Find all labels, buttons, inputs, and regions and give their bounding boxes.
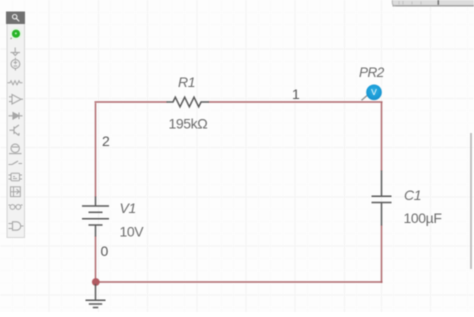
toolbar icon: ground [11,48,21,56]
svg-text:R1: R1 [178,74,195,90]
wire: left vertical below V1 [95,236,97,282]
svg-text:V1: V1 [120,200,136,216]
resistor R1 [167,97,210,107]
svg-text:2: 2 [102,133,110,149]
probe PR2 [362,85,382,101]
capacitor C1 [372,171,392,226]
wire: right vertical above C1 [381,102,383,171]
top zoom toolbar (clipped) [392,0,474,6]
svg-text:PR2: PR2 [359,65,385,80]
wire: top horizontal right of R1 (node 1) [209,101,383,103]
toolbar icon: resistor [8,81,23,85]
toolbar icon: misc [9,205,23,210]
wire: bottom horizontal [96,281,383,283]
toolbar icon: PLD [11,187,21,197]
toolbar icon: indicator [9,144,22,154]
svg-text:C1: C1 [404,187,421,203]
toolbar icon: AND gate [9,222,24,230]
svg-text:100µF: 100µF [404,210,442,226]
left toolbar strip [7,12,25,238]
battery V1 [82,197,109,237]
svg-text:0: 0 [101,243,109,259]
wire: top horizontal left of R1 [95,101,168,103]
right scrollbar thumb [470,133,472,269]
junction dot node 0 [92,278,100,286]
wire: top-left vertical (node 2) [95,103,97,197]
toolbar icon: op-amp [9,95,23,105]
toolbar icon: transistor [10,125,20,136]
svg-text:V: V [371,87,377,97]
ground [86,284,106,308]
toolbar icon: power source [11,58,20,71]
toolbar icon: diode [9,113,23,120]
toolbar icon: switch [9,161,23,165]
wire: right vertical below C1 [381,225,383,283]
svg-text:1: 1 [292,86,300,102]
search box [6,12,25,25]
svg-text:195kΩ: 195kΩ [169,116,208,132]
svg-text:10V: 10V [120,224,145,240]
toolbar icon: chip [9,173,23,181]
green interactive icon [10,28,22,40]
